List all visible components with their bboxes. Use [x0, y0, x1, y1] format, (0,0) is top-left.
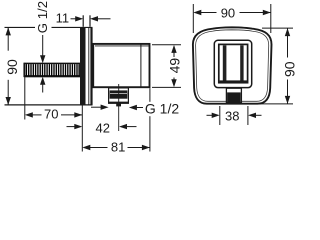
body (side view) [93, 44, 149, 87]
outlet nub (front) [226, 88, 241, 103]
G 1/2 leader (outlet nub) [91, 101, 179, 117]
svg-text:90: 90 [282, 61, 298, 77]
threaded pipe G1/2 (hatched, side view) [24, 63, 80, 76]
dimension 38 (outlet width) [207, 106, 262, 125]
dimension 90 (front, height) [259, 28, 298, 104]
svg-text:49: 49 [167, 58, 183, 74]
svg-text:38: 38 [225, 109, 239, 124]
raised boss (front) [214, 40, 251, 87]
dimension 11 (plate thickness) [56, 10, 111, 27]
dimension G 1/2 (top label for pipe) [35, 1, 50, 93]
front escutcheon (soft square) [193, 27, 272, 103]
plate front thin line [88, 27, 90, 105]
outlet nub (side view) [109, 88, 129, 107]
svg-text:90: 90 [221, 5, 235, 20]
outlet window (front) [219, 44, 248, 83]
shared extension line (plate back) for 70/42/81 [81, 106, 83, 152]
plate top edge + extension to left dim (gap at G 1/2 text) [5, 26, 36, 28]
dimension 49 (body height) [152, 45, 183, 88]
svg-text:90: 90 [4, 59, 20, 75]
escutcheon plate (side view, black slab) [80, 27, 86, 105]
dimension 90 (front, width) [193, 4, 270, 33]
plate bottom edge + extension to left dim [5, 104, 93, 106]
dimension 70 (pipe length) [25, 63, 83, 122]
svg-text:42: 42 [96, 120, 110, 135]
svg-text:70: 70 [44, 107, 58, 122]
svg-text:11: 11 [56, 10, 70, 25]
svg-text:81: 81 [111, 140, 125, 155]
dimension 42 (outlet offset) [67, 120, 137, 135]
dimension 90 (left, plate height) [4, 27, 20, 105]
dimension 81 (projection) [82, 88, 150, 154]
svg-text:G 1/2: G 1/2 [35, 1, 50, 33]
svg-text:G 1/2: G 1/2 [145, 101, 179, 117]
plate front thick line [90, 27, 92, 105]
nub centre line [118, 84, 120, 131]
